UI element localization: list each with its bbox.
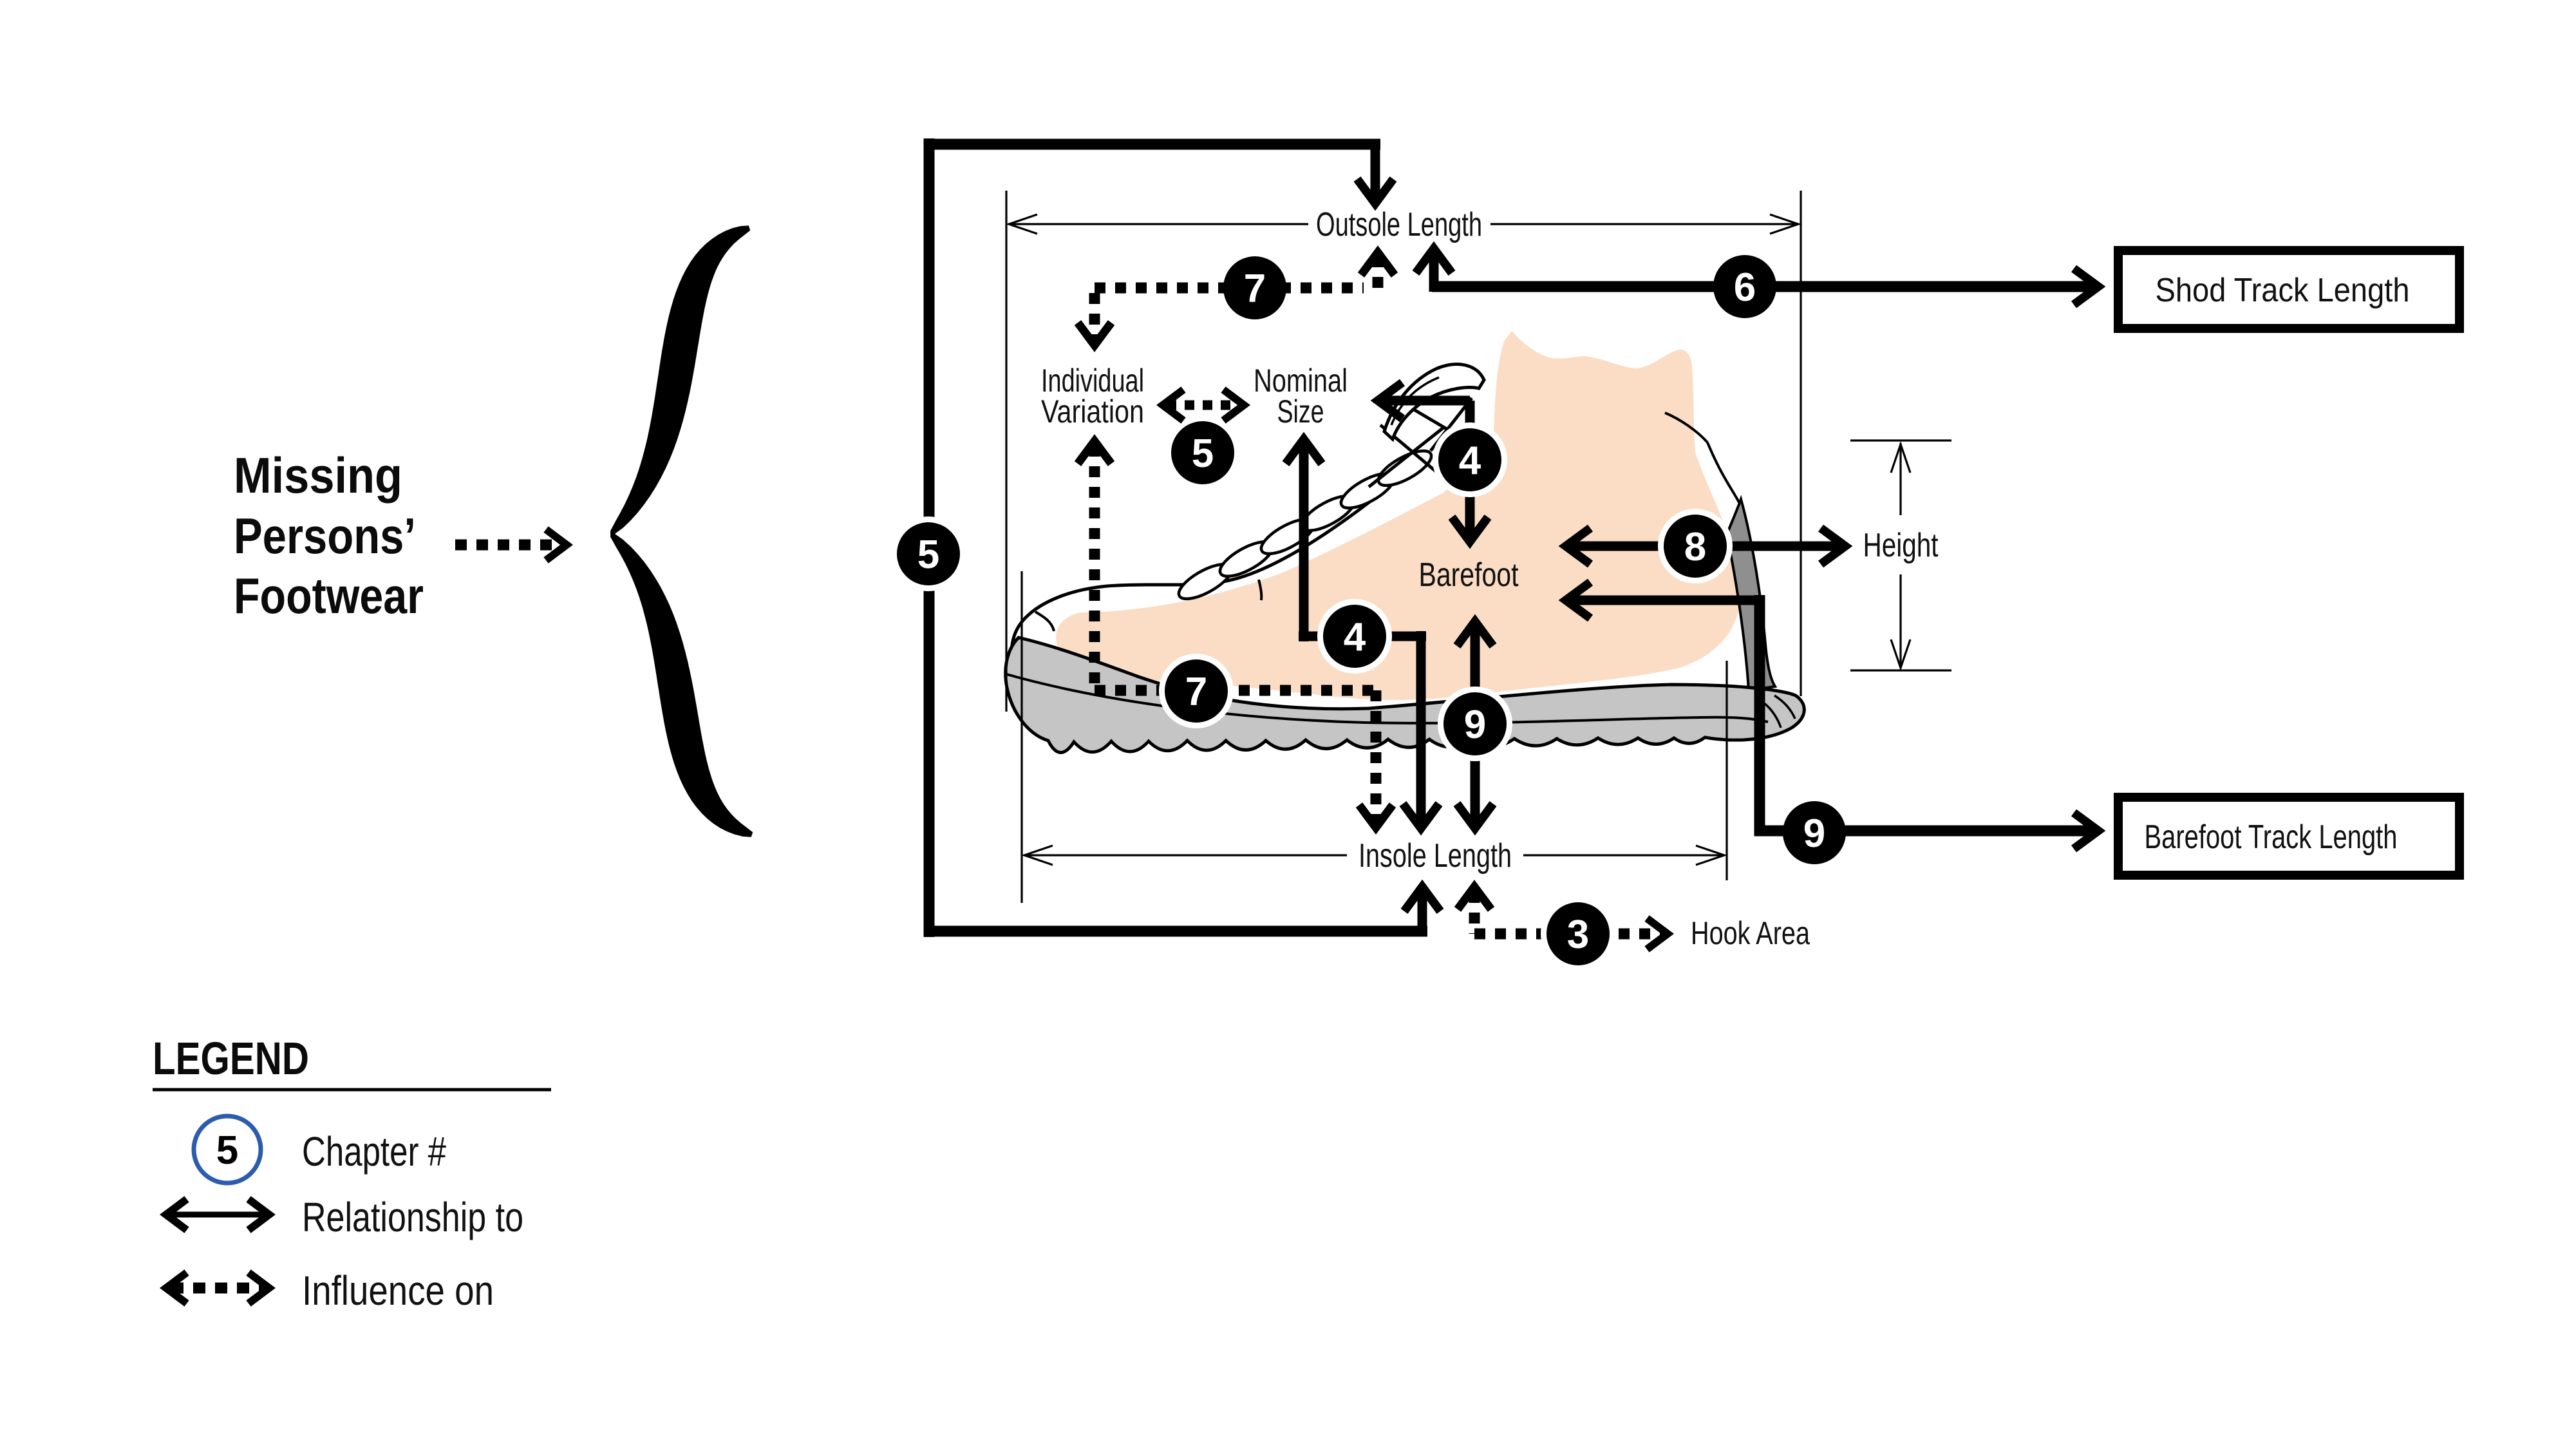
- svg-text:LEGEND: LEGEND: [153, 1034, 309, 1084]
- svg-text:5: 5: [1192, 431, 1214, 476]
- svg-text:Barefoot: Barefoot: [1419, 556, 1519, 594]
- svg-text:Insole Length: Insole Length: [1359, 837, 1512, 875]
- barefoot silhouette: [1056, 331, 1741, 700]
- svg-text:Chapter #: Chapter #: [302, 1128, 446, 1175]
- collar back edge: [1665, 413, 1707, 442]
- svg-text:Size: Size: [1277, 393, 1324, 430]
- influence 3 hook area: [1458, 887, 1491, 909]
- svg-text:8: 8: [1684, 525, 1706, 569]
- height dimension: [1850, 439, 1951, 441]
- relationship 9 double arrow (barefoot-insole): [1457, 621, 1493, 646]
- relationship 6 arrow: [1416, 249, 1452, 273]
- svg-text:Footwear: Footwear: [234, 567, 424, 624]
- heel counter dark piece: [1727, 499, 1775, 690]
- svg-text:7: 7: [1244, 267, 1266, 311]
- svg-text:7: 7: [1185, 670, 1207, 714]
- svg-text:Relationship to: Relationship to: [302, 1194, 523, 1240]
- svg-text:4: 4: [1459, 439, 1481, 483]
- svg-text:5: 5: [216, 1128, 238, 1173]
- svg-text:Hook Area: Hook Area: [1691, 915, 1810, 951]
- nominal size relationship 4 arrow: [1286, 439, 1322, 464]
- svg-text:Shod Track Length: Shod Track Length: [2156, 272, 2410, 309]
- svg-text:Influence on: Influence on: [302, 1267, 494, 1314]
- shoe vamp and lacing edge outline: [1011, 452, 1431, 684]
- shod track length box: [2118, 251, 2459, 328]
- sole seam lines: [1004, 674, 1768, 723]
- relationship 8 arrow: [1566, 528, 1590, 564]
- svg-text:Height: Height: [1863, 527, 1939, 564]
- lace loops: [1174, 558, 1237, 605]
- influence 7 lower dashed: [1095, 685, 1376, 696]
- title dotted influence arrow: [455, 540, 560, 551]
- curly brace: [610, 225, 753, 837]
- svg-text:9: 9: [1803, 811, 1825, 856]
- toe cap seam: [1035, 612, 1054, 631]
- outsole length dimension: [1005, 191, 1007, 712]
- svg-text:Variation: Variation: [1041, 393, 1144, 430]
- chapter-5 frame arrow: [924, 138, 935, 937]
- insole length dimension: [1020, 571, 1022, 903]
- svg-text:4: 4: [1344, 615, 1366, 659]
- relationship 9 arrow via heel: [1566, 582, 1590, 618]
- individual variation dashed vertical (5 influence): [1078, 441, 1111, 464]
- influence 7 top: [1095, 283, 1364, 294]
- svg-text:Missing: Missing: [234, 447, 402, 504]
- svg-text:Outsole Length: Outsole Length: [1316, 206, 1482, 243]
- svg-text:Barefoot Track Length: Barefoot Track Length: [2145, 819, 2398, 856]
- relationship 4 upper arrow: [1378, 383, 1402, 419]
- shoe upper (boot): [1011, 303, 1760, 700]
- svg-text:3: 3: [1567, 913, 1589, 957]
- svg-text:Persons’: Persons’: [234, 507, 416, 564]
- collar cuff: [1384, 365, 1484, 439]
- barefoot track length box: [2118, 797, 2459, 875]
- sole (outsole): [1006, 638, 1805, 753]
- frame circle 5: [891, 516, 966, 591]
- lace crisscross: [1369, 398, 1486, 487]
- svg-text:5: 5: [917, 533, 939, 577]
- svg-text:9: 9: [1464, 703, 1486, 747]
- svg-text:6: 6: [1734, 265, 1756, 310]
